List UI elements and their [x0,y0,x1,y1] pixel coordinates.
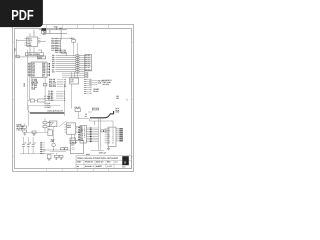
U5 left pin stubs [105,129,108,143]
resistor R17 with ground [59,155,63,159]
resistor R12 box [76,127,81,132]
box below U4 [70,138,76,144]
control bus thick segment [90,111,114,118]
wire bottom h151 [50,151,66,153]
long vertical wire net W1 [77,43,79,78]
J2 pin name texts [85,54,90,71]
VCC net arrow [56,27,58,29]
sheet inner border frame [15,29,132,169]
net label column K [43,30,48,36]
svg-text:XTAL 11.0592: XTAL 11.0592 [27,53,39,56]
U1 left pin stubs [24,39,26,46]
labels above decoupling row [44,95,50,100]
connector J2 lower pin rows [85,80,89,94]
svg-text:FSCM NO: FSCM NO [85,161,94,164]
group1 end marks [64,78,66,88]
U8 right pin rows to bus [87,128,99,142]
title block outline [76,156,132,169]
Q1 labels [51,138,56,143]
junction labels left of bus2 [92,107,99,112]
jumper JP3 box [16,55,19,58]
IC U8 left of bus [80,126,87,144]
resistor R16 with ground [55,155,59,159]
stack C pin lines right [79,55,85,71]
wire stub left [88,111,92,113]
J2 lower pin ticks [84,79,85,94]
R10 R11 labels [48,121,51,128]
U1 right pin stubs [38,39,40,43]
net label pair stack group2 [48,90,53,102]
wire U3 verticals [72,72,75,109]
wire mid vertical [64,84,66,116]
cap C5 vertical [22,137,26,154]
J2 lower pin name texts [89,78,91,95]
stack A collector vertical [60,38,62,52]
U5 right stubs [116,129,119,141]
svg-text:SHEET: SHEET [96,165,103,168]
net labels right of bus2 [115,107,120,114]
wire cluster to K1 [27,131,48,133]
cap C6 vertical [27,137,31,154]
IC U1 supervisor [27,37,38,47]
svg-text:B8 K8: B8 K8 [85,68,90,71]
U2 left pin numbers [28,63,29,76]
note text block right lower [116,95,119,100]
svg-text:DWG NO: DWG NO [96,161,104,164]
wire rail stub junction [41,30,50,34]
resistor R14 [61,148,65,150]
MCU U2 [31,62,47,78]
U2 right pin numbers [49,63,50,76]
wire RN1 down [73,42,75,56]
box R13 [48,130,52,136]
svg-text:P44 A12: P44 A12 [49,85,56,88]
PDF badge [0,0,43,27]
title block row2 texts [77,161,118,164]
wire vertical left of label stack [44,78,46,96]
group2 end marks [64,90,65,102]
svg-text:JP2: JP2 [116,97,119,100]
diagonal wire [59,121,67,127]
svg-text:8: 8 [113,141,114,144]
svg-text:LS1: LS1 [51,140,54,143]
data bus thick segment [30,112,64,114]
U2 right pins [47,63,50,75]
U4 left pins [64,125,66,133]
svg-text:C IN uF: C IN uF [16,128,23,131]
address label stack A [51,37,58,52]
left bus vertical pair [28,50,30,110]
note text block right [103,79,113,86]
svg-text:17: 17 [50,124,52,127]
stack A bottom routes [61,52,67,56]
wire horizontal h1 [28,105,60,107]
zone ticks bottom border [47,169,109,172]
stack C group2 rows [62,73,84,77]
U8 right pin number marks [90,128,92,143]
svg-text:GND: GND [27,44,32,47]
bottom wire under bus pair [91,149,104,151]
connector J2 box [85,55,92,71]
IC U5 right [108,127,116,146]
group1 stub wires [57,80,64,87]
svg-text:A4: A4 [77,165,79,168]
ground sym cluster 2 [33,134,36,137]
resistor network RN1 [71,37,76,42]
svg-text:S1 RST: S1 RST [45,106,52,109]
decoupling row C group [30,99,45,102]
svg-text:1.2: 1.2 [115,161,117,164]
logo box dark [122,156,128,165]
note text block left margin [16,124,24,132]
crystal X1 block [25,53,43,56]
driver U4 [66,123,75,134]
svg-text:7: 7 [84,136,85,139]
labels below decoupling row [45,102,52,109]
power rail VCC lower [41,32,67,34]
ground sym U5 [107,147,110,151]
zone ticks left border [12,42,15,156]
svg-text:K1: K1 [48,127,50,130]
svg-text:PDF: PDF [11,8,34,24]
series resistor row R array [76,55,79,73]
net text small mid [85,113,87,118]
data label stack C [52,54,55,73]
small box cluster 2 [32,131,36,135]
title block row3 texts [77,165,113,168]
title block v dividers [84,156,122,169]
svg-text:P23 P24 P25: P23 P24 P25 [55,51,66,54]
U8 left pin ticks [78,127,79,140]
stack C pin lines left [56,55,76,71]
series resistor pair small [101,130,106,132]
wire R9 down and right [78,112,89,122]
U2 left pins [29,63,31,75]
svg-text:1 OF 1: 1 OF 1 [107,165,112,168]
zone ticks right border [132,42,134,156]
svg-text:CN1: CN1 [13,48,16,52]
sheet outer border frame [13,25,134,172]
junction dots bottom wires [45,150,57,155]
svg-text:OSC: OSC [38,56,43,59]
connector J4 pin rows [40,142,45,154]
relay module U6 [70,140,83,153]
svg-text:S: S [124,160,126,164]
wire rail drop to RN1 column [60,30,62,40]
power rail VCC upper [39,29,67,31]
wire between decoupling boxes [28,100,56,102]
wire U4 to U6 [72,134,75,140]
U2 lower pin name rows [31,78,38,90]
svg-text:VIN 24V: VIN 24V [103,83,110,86]
svg-text:373: 373 [70,81,73,84]
wire w2 horizontal [89,121,113,127]
wire U7 to Q1 [52,127,54,140]
svg-text:C2 30p: C2 30p [44,97,50,100]
svg-text:R9 4K7: R9 4K7 [75,106,81,109]
net labels right of J2 [98,79,105,84]
svg-text:RN1: RN1 [71,37,75,40]
opto box U7 [49,121,57,127]
resistor pair R10 R11 [43,118,47,132]
svg-text:DISPLAY: DISPLAY [99,151,107,154]
resistor R9 box [75,106,81,111]
svg-text:SCALE 1:1: SCALE 1:1 [85,165,94,168]
resistor R2 on vertical [43,83,47,86]
resistor R18 [65,148,68,150]
svg-text:+5V: +5V [59,27,63,30]
ferrite bead L1 on rail [42,28,47,31]
wire bottom h150 [42,149,70,151]
crystal X2 block [37,56,45,59]
latch U3 [70,78,79,84]
title block h dividers [76,160,132,164]
ground sym left cluster [23,134,26,136]
svg-text:8051 MAIN CONTROL BOARD: 8051 MAIN CONTROL BOARD [77,157,118,160]
cap C7 vertical [32,137,36,154]
svg-text:DATA BUS D0..D7: DATA BUS D0..D7 [48,109,63,112]
group2 resistors [85,73,88,78]
wire bottom h154 [20,153,55,155]
stack A top route to RN1 [61,37,72,39]
svg-text:INT1 P33: INT1 P33 [92,109,99,112]
svg-text:CN2: CN2 [23,83,26,87]
wire vertical to left cluster [27,106,29,126]
resistor R15 with ground [47,155,51,161]
svg-text:EA/VP: EA/VP [93,90,99,93]
wire left input to U1 [16,39,46,57]
bus elbow from verticals [28,110,30,114]
transistor Q1 circle [52,140,56,150]
J2 right side wires [89,81,97,85]
zone ticks top border [47,24,109,29]
stack A stub lines [58,39,61,51]
vertical bus pair right [98,118,100,150]
header labels above stack C [55,49,66,54]
svg-text:2003: 2003 [67,126,71,129]
group2 stub wires [56,92,64,101]
small parts cluster left [23,124,27,135]
wire rail drop to U1 pins [30,30,34,37]
wire U1 to X1 [30,47,42,53]
reset net labels [93,88,100,93]
svg-text:GND: GND [31,87,36,90]
net label pair stack group1 [49,78,56,88]
U5 right pad column [119,128,123,141]
